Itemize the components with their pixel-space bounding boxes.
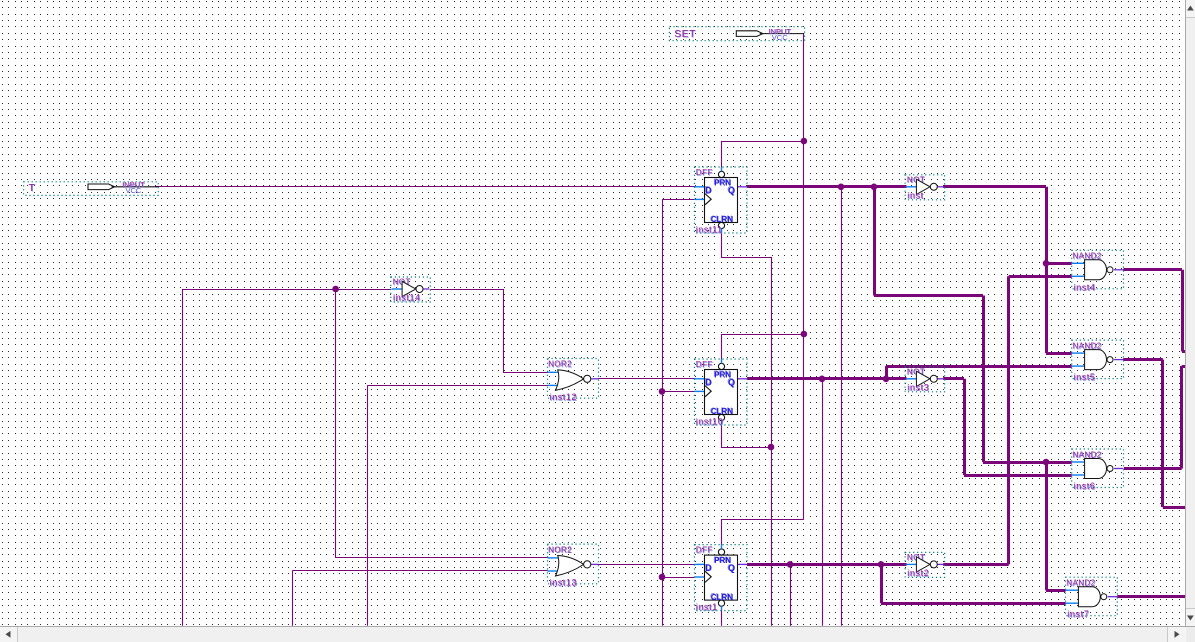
wire CLRN branch to inst10 <box>721 447 771 449</box>
wire SET vertical <box>803 34 805 519</box>
D flip-flop U inst11 <box>695 167 748 235</box>
junction SET/inst10 PRN <box>801 331 808 338</box>
wire Q1 branch down x=874 (thick) <box>873 187 876 296</box>
wire down x=1046 (thick) <box>1045 187 1048 353</box>
NOT gate U inst3 <box>905 367 945 393</box>
NOR2 gate U inst12 <box>548 359 599 403</box>
wire inst1 Q to NOT inst2 (thick) <box>747 563 907 566</box>
junction clock/inst10 <box>659 388 666 395</box>
wire to inst6 bottom input (thick) <box>964 474 1072 477</box>
wire thick vertical x=983 <box>982 296 985 463</box>
junction Q3/x881 <box>878 561 885 568</box>
junction SET/inst11 PRN <box>801 138 808 145</box>
svg-text:inst7: inst7 <box>1067 609 1089 619</box>
wire thick horizontal y=295 <box>874 294 983 297</box>
wire inst4 output down x=1182 <box>1181 270 1184 352</box>
svg-text:D: D <box>705 563 712 573</box>
junction Q1/x841 <box>838 184 845 191</box>
wire to inst12 bottom input <box>367 385 547 387</box>
svg-text:T: T <box>29 183 36 194</box>
wire inst4 output exits right edge <box>1182 350 1185 353</box>
wire CLRN vertical x=771 <box>771 257 773 626</box>
wire down x=503 <box>503 289 505 372</box>
NAND2 gate U inst6 <box>1072 449 1124 492</box>
scrollbar corner <box>1186 627 1195 642</box>
wire to inst7 bottom input (thick) <box>881 602 1066 605</box>
junction inst4 top input <box>1043 260 1050 267</box>
D flip-flop U inst1 (DFF) <box>695 545 748 613</box>
svg-text:CLRN: CLRN <box>711 215 733 224</box>
junction inst14 input branch <box>332 286 339 293</box>
wire inst5 output exits right edge <box>1163 506 1185 509</box>
svg-text:NOR2: NOR2 <box>548 360 572 369</box>
wire to inst7 top input (thick) <box>1046 589 1066 592</box>
wire inst7 output exits right edge (thick) <box>1117 595 1185 598</box>
wire SET branch to inst1 PRN horizontal <box>721 519 804 521</box>
junction Q1/x874 <box>871 184 878 191</box>
svg-text:SET: SET <box>674 29 696 40</box>
svg-text:inst5: inst5 <box>1074 372 1096 382</box>
wire vertical x=822 from Q2 junction <box>822 379 824 626</box>
input pin T <box>24 180 159 195</box>
svg-text:inst: inst <box>907 190 923 200</box>
junction inst6/inst7 inputs <box>1043 459 1050 466</box>
input pin SET <box>669 27 804 42</box>
svg-text:inst14: inst14 <box>393 293 421 303</box>
svg-text:inst13: inst13 <box>550 578 578 588</box>
wire clock to inst10 CLK <box>662 391 695 393</box>
wire inst11 Q to NOT inst (thick) <box>747 185 907 188</box>
svg-text:inst10: inst10 <box>696 417 724 427</box>
svg-text:VCC: VCC <box>772 33 788 42</box>
D flip-flop U inst10 <box>695 359 748 427</box>
svg-text:inst3: inst3 <box>907 382 929 392</box>
wire SET branch to inst11 PRN horizontal <box>721 141 804 143</box>
svg-text:DFF: DFF <box>696 168 713 177</box>
NAND2 gate U inst7 <box>1066 577 1118 620</box>
svg-text:CLRN: CLRN <box>711 593 733 602</box>
wire to inst13 bottom input <box>292 570 547 572</box>
wire inst12 output to inst10 D <box>599 378 695 380</box>
wire Q3 branch down x=881 (thick) <box>880 564 883 603</box>
wire to inst4 bottom input (thick) <box>1009 275 1072 278</box>
svg-text:inst1: inst1 <box>696 602 718 612</box>
svg-text:inst11: inst11 <box>696 225 723 235</box>
junction Q2/x886 <box>883 376 890 383</box>
wire branch down x=1046 (thick) <box>1045 462 1048 590</box>
junction Q2/x822 <box>819 376 826 383</box>
NOT gate U inst14 <box>391 277 431 303</box>
wire to inst5 bottom input (thick) <box>886 365 1072 368</box>
wire up x=1008.7 (thick) <box>1007 276 1010 564</box>
svg-text:inst12: inst12 <box>550 392 578 402</box>
horizontal scrollbar <box>0 626 1195 642</box>
wire inst1 CLRN exits bottom <box>721 606 723 626</box>
svg-text:Q: Q <box>728 378 735 388</box>
svg-text:D: D <box>705 186 712 196</box>
wire Q2 branch up x=886 (thick) <box>885 366 888 379</box>
wire NOT inst3 output (thick) <box>943 377 964 380</box>
wire inst5 output down x=1162.8 <box>1161 360 1164 507</box>
wire inst11 CLRN down <box>721 228 723 257</box>
wire NOT inst output (thick) <box>943 185 1046 188</box>
wire CLRN horizontal <box>721 257 771 259</box>
wire inst4 output (thick) <box>1124 268 1183 271</box>
wire inst13 output to inst1 D <box>599 564 695 566</box>
wire clock to inst11 CLK <box>662 199 695 201</box>
wire to inst14 input <box>182 289 391 291</box>
svg-text:DFF: DFF <box>696 360 713 369</box>
wire inst6 output up x=1181.7 <box>1180 366 1183 469</box>
wire inst5 output (thick) <box>1123 358 1163 361</box>
junction clock/inst1 <box>659 574 666 581</box>
wire T input to inst11 D <box>155 186 695 188</box>
wire to inst12 top input <box>503 372 548 374</box>
NOR2 gate U inst13 <box>548 544 599 588</box>
wire to inst13 top input <box>336 557 548 559</box>
wire down x=964 (thick) <box>963 379 966 475</box>
NOT gate U inst2 <box>905 552 945 578</box>
wire to inst4 top input (thick) <box>1046 262 1072 265</box>
wire clock to inst1 CLK <box>662 577 695 579</box>
wire to inst10 PRN bubble <box>721 334 723 364</box>
wire inst6 output (thick) <box>1124 467 1182 470</box>
wire to inst10 CLRN bubble <box>721 421 723 448</box>
wire clock vertical x=662 <box>662 199 664 625</box>
wire to inst11 PRN bubble <box>721 141 723 172</box>
wire inst6 output exits right edge <box>1182 365 1185 368</box>
wire to inst1 PRN bubble <box>721 519 723 549</box>
junction Q3/x790 <box>787 561 794 568</box>
wire SET branch to inst10 PRN horizontal <box>721 334 804 336</box>
svg-text:inst4: inst4 <box>1074 282 1096 292</box>
vertical scrollbar <box>1185 0 1195 626</box>
NAND2 gate U inst5 <box>1072 340 1124 383</box>
wire vertical x=182 from bottom <box>182 289 184 626</box>
wire vertical x=790 from Q3 junction <box>790 564 792 625</box>
wire vertical x=292 from bottom <box>292 571 294 626</box>
svg-text:VCC: VCC <box>126 186 142 195</box>
svg-text:Q: Q <box>728 186 735 196</box>
svg-text:CLRN: CLRN <box>711 407 733 416</box>
svg-text:inst6: inst6 <box>1074 481 1096 491</box>
wire vertical x=367 from bottom <box>367 385 369 625</box>
svg-text:D: D <box>705 378 712 388</box>
svg-text:Q: Q <box>728 563 735 573</box>
wire NOT inst2 output (thick) <box>943 563 1009 566</box>
wire inst10 Q to NOT inst3 (thick) <box>747 377 907 380</box>
wire inst14 output <box>430 289 503 291</box>
wire branch down x=335.6 <box>335 289 337 558</box>
svg-text:inst2: inst2 <box>907 568 929 578</box>
svg-text:NOR2: NOR2 <box>548 545 572 554</box>
wire to inst5 top input (thick) <box>1046 352 1072 355</box>
NAND2 gate U inst4 <box>1072 250 1124 293</box>
svg-text:DFF: DFF <box>696 546 713 555</box>
junction CLRN chain <box>768 444 775 451</box>
wire to inst6 top input (thick) <box>983 461 1072 464</box>
NOT gate U inst (NOT) <box>905 175 945 201</box>
wire vertical x=841 from Q1 junction <box>841 187 843 626</box>
